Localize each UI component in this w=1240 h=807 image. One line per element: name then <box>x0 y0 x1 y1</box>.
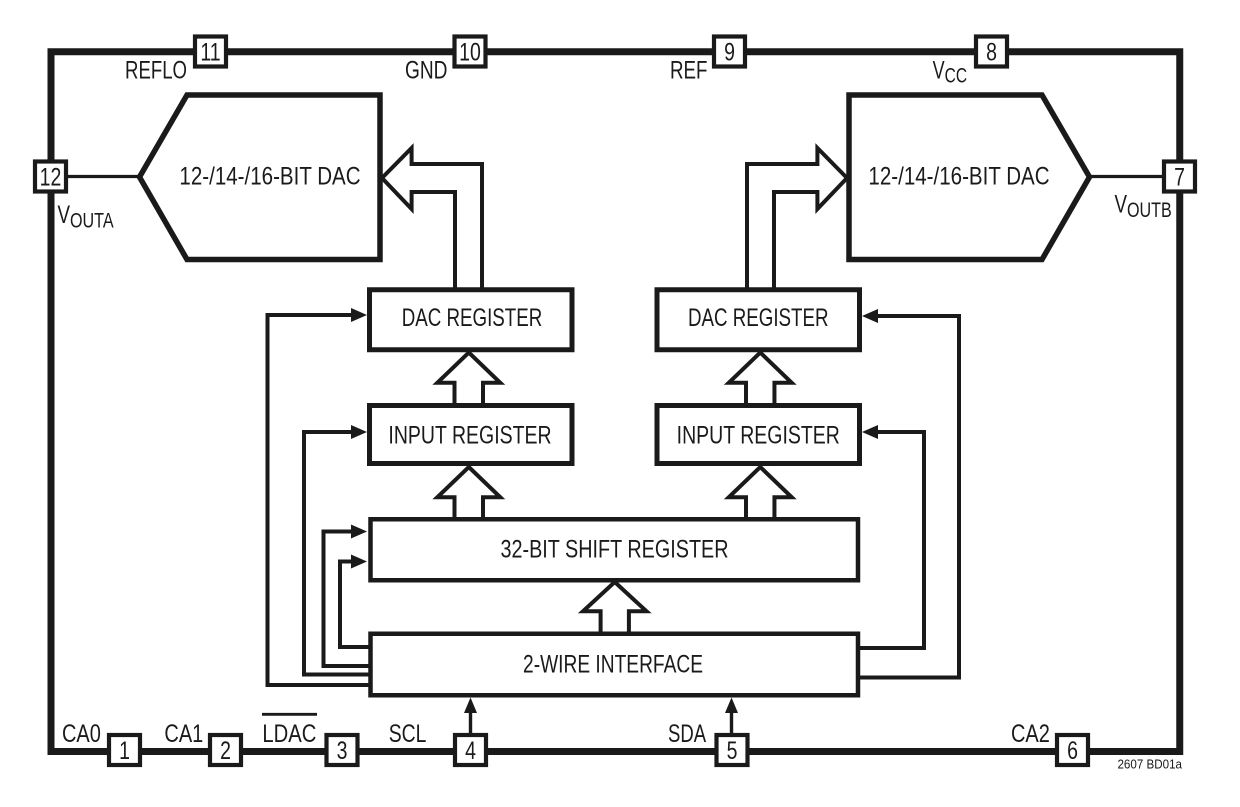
svg-text:12-/14-/16-BIT DAC: 12-/14-/16-BIT DAC <box>179 162 360 190</box>
svg-text:CA1: CA1 <box>164 720 203 748</box>
svg-text:10: 10 <box>459 38 481 66</box>
svg-text:4: 4 <box>465 737 476 765</box>
pin 4 <box>455 735 486 765</box>
pin 5 <box>717 735 748 765</box>
wire SDA arrow into 2-wire interface <box>725 698 738 735</box>
wire pin12 to DAC A <box>50 175 142 178</box>
pin 6 <box>1057 735 1088 765</box>
DAC A (12-/14-/16-BIT DAC) <box>140 95 381 260</box>
pin 10 <box>455 37 486 67</box>
wire R1 2-wire to DAC REGISTER B <box>858 309 959 678</box>
pin 1 <box>109 735 140 765</box>
DAC B (12-/14-/16-BIT DAC) <box>849 95 1090 260</box>
block arrow INPUT REGISTER B to DAC REGISTER B <box>729 353 792 406</box>
wire L1 2-wire to DAC REGISTER A <box>268 308 371 685</box>
block arrow SHIFT REGISTER to INPUT REGISTER B <box>729 467 792 521</box>
svg-text:SDA: SDA <box>668 719 706 747</box>
svg-text:CA0: CA0 <box>62 720 101 748</box>
block arrow SHIFT REGISTER to INPUT REGISTER A <box>437 467 500 521</box>
svg-text:32-BIT SHIFT REGISTER: 32-BIT SHIFT REGISTER <box>500 535 728 563</box>
svg-text:LDAC: LDAC <box>262 719 316 748</box>
svg-text:CA2: CA2 <box>1011 720 1050 748</box>
svg-text:12-/14-/16-BIT DAC: 12-/14-/16-BIT DAC <box>868 162 1049 190</box>
pin 11 <box>195 37 226 67</box>
svg-text:SCL: SCL <box>389 720 427 748</box>
svg-text:INPUT REGISTER: INPUT REGISTER <box>677 421 840 449</box>
DAC REGISTER B box <box>657 290 860 350</box>
svg-text:DAC REGISTER: DAC REGISTER <box>402 303 543 331</box>
svg-text:7: 7 <box>1174 163 1185 191</box>
block arrow DAC REGISTER B to DAC B <box>747 148 847 290</box>
svg-text:12: 12 <box>40 163 62 191</box>
DAC REGISTER A box <box>370 290 573 350</box>
INPUT REGISTER A box <box>370 406 573 464</box>
wire L2 2-wire to INPUT REGISTER A <box>304 425 370 675</box>
svg-text:11: 11 <box>200 38 220 66</box>
block arrow DAC REGISTER A to DAC A <box>382 148 482 290</box>
pin 9 <box>714 37 745 67</box>
pin 2 <box>210 735 241 765</box>
svg-text:2-WIRE INTERFACE: 2-WIRE INTERFACE <box>523 650 703 678</box>
wire SCL arrow into 2-wire interface <box>464 698 477 735</box>
svg-text:3: 3 <box>337 737 348 765</box>
svg-text:2: 2 <box>220 737 231 765</box>
svg-text:REF: REF <box>670 56 707 84</box>
block arrow INPUT REGISTER A to DAC REGISTER A <box>437 353 500 406</box>
32-BIT SHIFT REGISTER box <box>371 519 859 580</box>
pin 12 <box>35 162 66 192</box>
svg-text:GND: GND <box>405 56 447 84</box>
label LDAC with overline <box>262 714 317 747</box>
wire L3 2-wire to SHIFT REGISTER upper <box>324 525 371 667</box>
INPUT REGISTER B box <box>657 406 860 464</box>
wire L4 2-wire to SHIFT REGISTER lower <box>340 555 370 648</box>
svg-text:1: 1 <box>119 737 130 765</box>
wire R2 2-wire to INPUT REGISTER B <box>858 425 924 648</box>
svg-text:2607 BD01a: 2607 BD01a <box>1117 757 1182 772</box>
svg-text:9: 9 <box>724 38 735 66</box>
pin 3 <box>327 735 358 765</box>
svg-text:REFLO: REFLO <box>125 56 187 84</box>
svg-text:6: 6 <box>1067 737 1078 765</box>
pin 8 <box>976 37 1007 67</box>
svg-text:DAC REGISTER: DAC REGISTER <box>688 303 829 331</box>
svg-text:8: 8 <box>986 38 997 66</box>
chip outline border <box>51 52 1180 752</box>
pin 7 <box>1164 162 1195 192</box>
2-WIRE INTERFACE box <box>371 634 859 696</box>
block arrow 2-WIRE INTERFACE to SHIFT REGISTER <box>583 582 647 634</box>
wire DAC B to pin7 <box>1086 175 1180 178</box>
svg-text:INPUT REGISTER: INPUT REGISTER <box>388 421 551 449</box>
svg-text:5: 5 <box>727 737 738 765</box>
